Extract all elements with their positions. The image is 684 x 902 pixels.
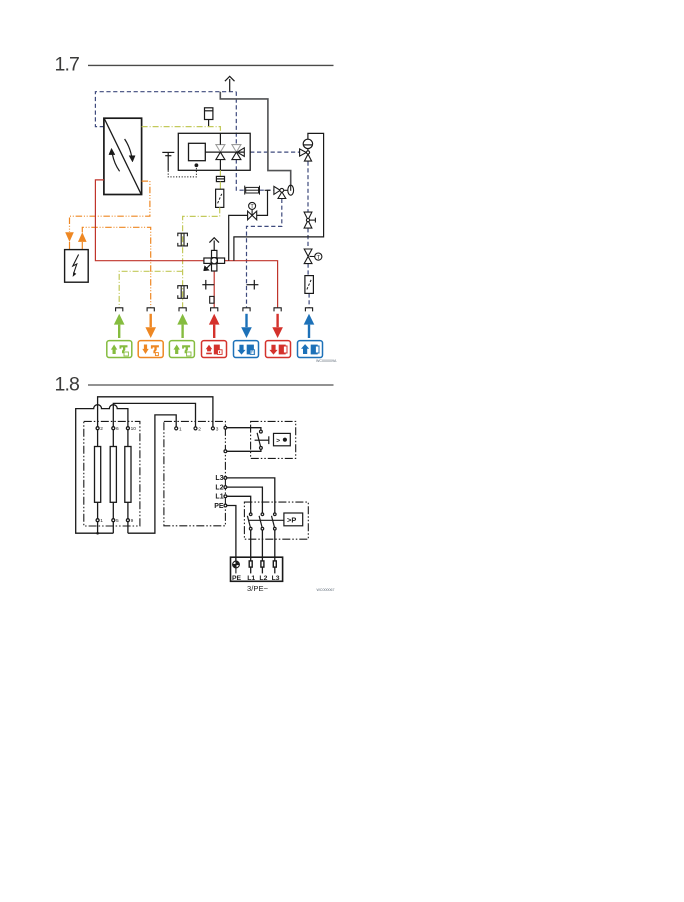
flange union upper <box>178 233 188 246</box>
terminal bracket 6 <box>274 308 281 312</box>
STB dashed enclosure <box>251 421 296 458</box>
power monitor box <box>284 513 303 526</box>
lightning bolt <box>73 255 79 274</box>
expansion vessel <box>205 108 213 126</box>
contactor pole 1 <box>247 513 252 530</box>
icon dhw-out orange <box>138 341 163 358</box>
wire blue-dashed shutoff valve to thermo valve <box>307 228 309 249</box>
drain stub on red pipe <box>210 296 214 303</box>
svg-text:1: 1 <box>179 426 182 432</box>
svg-text:L2: L2 <box>215 484 223 491</box>
PE earth symbol <box>233 557 240 573</box>
arrow orange down 2 <box>145 314 156 338</box>
fuse terminal L1 <box>249 561 252 574</box>
control unit dashed enclosure <box>164 421 226 525</box>
svg-text:10: 10 <box>131 426 137 432</box>
icon dhw-in green <box>107 341 132 358</box>
PV electric box <box>65 250 89 283</box>
wire red branch to terminal 4 <box>213 266 215 307</box>
svg-text:9: 9 <box>131 518 134 524</box>
flow meter <box>245 186 260 195</box>
arrow green up 3 <box>177 314 188 338</box>
wire blue-dashed brine circuit top run <box>95 92 236 127</box>
control terminals 1 2 3 <box>175 427 215 430</box>
wire PE <box>227 506 236 562</box>
heading 1.7 <box>55 54 334 76</box>
terminal bracket 7 <box>305 308 312 312</box>
wire blue-dashed meter to 3way valve <box>260 189 274 191</box>
mains terminal strip <box>231 557 283 581</box>
sensor outdoor probe <box>162 152 174 170</box>
valve thermostatic with T <box>248 202 257 219</box>
wire olive filter to zone drop <box>183 207 220 307</box>
flange union lower <box>178 286 188 299</box>
wire L2 <box>227 487 263 513</box>
strip labels <box>232 575 280 582</box>
wire orange HX loop to PV in <box>70 181 150 232</box>
valve V2 3-way in unit <box>232 145 244 160</box>
svg-text:5: 5 <box>116 518 119 524</box>
contactor dashed enclosure <box>244 502 308 539</box>
fuse terminal L2 <box>261 561 264 574</box>
icon heating-return blue <box>234 341 259 358</box>
wire to STB <box>227 428 261 431</box>
wire STB return <box>227 449 261 451</box>
contactor pole 2 <box>259 513 264 530</box>
heating element E1 <box>95 427 101 534</box>
svg-text:1: 1 <box>100 518 103 524</box>
icon heating-flow red <box>202 341 227 358</box>
svg-text:3/PE~: 3/PE~ <box>247 584 268 593</box>
svg-text:WC000009A: WC000009A <box>316 359 337 363</box>
svg-text:T: T <box>317 255 321 261</box>
svg-text:3: 3 <box>216 426 219 432</box>
arrow red down 6 <box>272 314 283 338</box>
heading 1.8 <box>55 373 334 395</box>
wire olive unit down to separator <box>219 170 221 176</box>
svg-text:L2: L2 <box>259 575 267 582</box>
pipe gray discharge <box>220 92 290 186</box>
terminal bracket 1 <box>116 308 123 312</box>
icon dhw-in green 2 <box>169 341 194 358</box>
svg-text:1.7: 1.7 <box>55 54 79 76</box>
valve 3way under pump <box>300 149 312 161</box>
wire blue-dashed below valve to meter level <box>236 159 244 190</box>
svg-text:1.8: 1.8 <box>55 373 79 395</box>
icon radiator-flow red <box>266 341 291 358</box>
svg-text:L3: L3 <box>215 475 223 482</box>
vent arrow top <box>225 76 235 91</box>
pipe black T-valve left drop <box>229 215 248 260</box>
svg-text:WC000067: WC000067 <box>317 588 335 592</box>
terminal bracket 2 <box>147 308 154 312</box>
contactor pole 3 <box>272 513 277 530</box>
tap tee on red pipe <box>202 280 214 290</box>
node L1 <box>224 495 227 498</box>
svg-text:2: 2 <box>198 426 201 432</box>
node PE <box>224 504 227 507</box>
node L3 <box>224 477 227 480</box>
svg-text:6: 6 <box>116 426 119 432</box>
svg-text:L1: L1 <box>247 575 255 582</box>
STB switch contact <box>255 430 269 449</box>
valve V1 in unit <box>216 133 225 170</box>
svg-text:PE: PE <box>232 575 242 582</box>
STB trip box <box>274 433 291 445</box>
pipe black pump loop <box>234 133 324 260</box>
terminal bracket 5 <box>243 308 250 312</box>
air separator <box>216 176 224 181</box>
filter F2 <box>305 276 314 294</box>
compressor square <box>189 143 206 160</box>
valve shutoff with stem <box>304 212 315 228</box>
svg-text:L1: L1 <box>215 494 223 501</box>
wire bus right segment <box>128 415 176 533</box>
valve with thermometer <box>304 249 322 264</box>
node STB out <box>224 426 227 429</box>
arrow blue down 5 <box>241 314 252 338</box>
pipe black T-valve right riser <box>257 190 268 215</box>
wire element2 top feed <box>113 403 195 427</box>
node L2 <box>224 486 227 489</box>
wire inside unit <box>205 151 244 153</box>
wire L3 <box>227 478 275 513</box>
tick junction above T-valve <box>265 189 271 191</box>
svg-text:>: > <box>276 438 280 445</box>
wire olive dash-dot HX to indoor unit <box>142 127 221 134</box>
wire element1 top feed <box>98 397 213 427</box>
wire olive branch to terminal 1 <box>119 271 182 307</box>
wire olive separator to filter <box>219 182 221 190</box>
svg-text:T: T <box>250 204 254 210</box>
wire orange to terminal 2 <box>82 227 150 307</box>
wire blue-dashed filter to terminal 7 <box>308 293 310 307</box>
svg-text:2: 2 <box>100 426 103 432</box>
node STB return <box>224 450 227 453</box>
heating element E2 <box>110 427 116 534</box>
wire L1 <box>227 496 251 513</box>
wire outer loop with crossover humps <box>76 405 128 534</box>
mixer 4-port valve <box>204 250 225 271</box>
terminal labels heater <box>100 426 136 524</box>
sensor dot on compressor <box>195 163 199 167</box>
wire dotted sensor link <box>168 167 196 177</box>
wire blue-dashed drop through indoor unit <box>235 92 237 145</box>
svg-text:>P: >P <box>287 516 296 525</box>
wire blue-dashed pump valve to shutoff valve <box>307 162 309 213</box>
wire red HX flow main <box>95 180 277 308</box>
pump P1 <box>303 139 312 151</box>
svg-text:PE: PE <box>214 503 224 510</box>
wire blue-dashed valve down left to terminal 5 <box>247 199 282 308</box>
3way valve with actuator <box>274 185 294 198</box>
heat exchanger HX <box>104 118 142 194</box>
tap tee on blue pipe <box>247 280 259 290</box>
wires contactor to strip <box>250 530 252 561</box>
vent arrow above mixer <box>209 238 219 251</box>
arrow red up 4 <box>209 314 220 338</box>
filter F1 <box>216 189 224 207</box>
power monitor link <box>248 519 284 521</box>
wire blue-dashed thermo valve to filter <box>307 264 309 276</box>
arrow green up 1 <box>114 314 125 338</box>
heating element E3 <box>125 427 131 534</box>
svg-text:R: R <box>251 350 254 355</box>
arrow orange down into PV box <box>65 232 74 242</box>
arrow orange up out of PV box <box>81 242 83 250</box>
fuse terminal L3 <box>273 561 276 574</box>
terminal bracket 4 <box>211 308 218 312</box>
icon radiator-return blue <box>298 341 323 358</box>
wire blue-dashed unit to pump valve <box>250 151 299 153</box>
terminal bracket 3 <box>179 308 186 312</box>
junction dot <box>96 532 99 535</box>
arrow blue up 7 <box>304 314 315 338</box>
indoor unit box <box>178 133 250 170</box>
svg-text:L3: L3 <box>272 575 280 582</box>
heater dashed enclosure <box>84 421 140 526</box>
labels L3 L2 L1 PE <box>214 475 224 510</box>
